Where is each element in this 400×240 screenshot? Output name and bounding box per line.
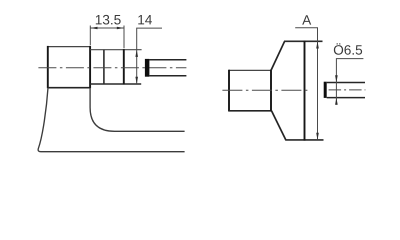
tip shaft centerline [329, 89, 366, 91]
anvil body left edge [47, 46, 49, 88]
frame outer edge (curved handle) [38, 88, 184, 152]
step section top edge (with extension for 14 dim) [90, 49, 142, 51]
arrow up of A [316, 41, 319, 48]
dimension O6.5 line with shelf [336, 59, 363, 105]
disc top edge (with extension for A dim) [284, 40, 323, 42]
stem top edge [229, 69, 271, 71]
frame inner edge with fillet [90, 88, 185, 132]
stem left edge [228, 70, 230, 112]
arrow down of A [316, 133, 319, 140]
arrow up onto shaft bottom (O6.5) [335, 98, 338, 105]
stem bottom edge [229, 110, 272, 112]
cone upper slant [271, 41, 285, 70]
spindle shaft top line [149, 59, 186, 61]
dimension 14 line with shelf [137, 28, 162, 84]
dimension 13.5 extension line right [123, 26, 125, 49]
tip shaft top line [327, 82, 365, 84]
dimension 13.5 extension line left [89, 26, 91, 46]
anvil body bottom edge [48, 87, 90, 89]
arrow down onto shaft top (O6.5) [335, 75, 338, 82]
centerline right axis [222, 89, 307, 91]
spindle carbide tip (black) [145, 59, 150, 77]
measuring tip (black) right view [324, 82, 327, 98]
tip shaft bottom line [327, 97, 365, 99]
step section bottom edge (with extension for 14 dim) [90, 83, 141, 85]
disc bottom edge (with extension for A dim) [285, 139, 323, 141]
arrow up of 14 [135, 50, 138, 57]
label 14 [138, 15, 152, 24]
step internal edge [103, 50, 105, 84]
anvil body top edge [48, 46, 90, 48]
arrow right of 13.5 [117, 27, 124, 30]
cone lower slant [272, 111, 286, 140]
dimension 13.5 line [90, 27, 124, 29]
label 13.5 [96, 15, 121, 25]
spindle shaft bottom line [149, 75, 186, 77]
centerline left axis [38, 67, 186, 69]
arrow left of 13.5 [90, 27, 97, 30]
arrow down of 14 [135, 77, 138, 84]
disc face edge [304, 41, 306, 141]
step right edge (anvil face) [123, 49, 125, 84]
anvil / step shared right edge [89, 46, 91, 88]
dimension A line with shelf [295, 28, 317, 140]
label A [302, 15, 311, 24]
label O6.5 [334, 43, 362, 55]
stem right edge [270, 70, 272, 112]
